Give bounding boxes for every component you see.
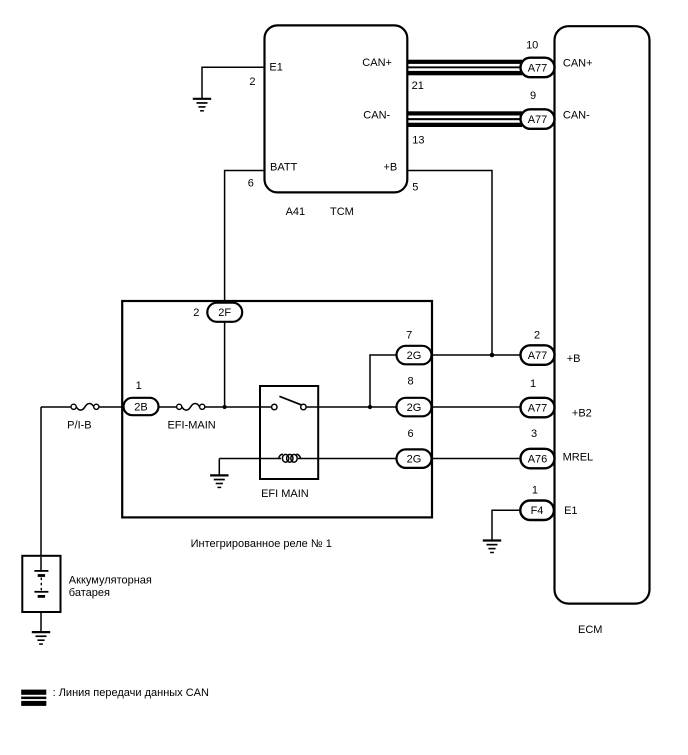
- svg-text:7: 7: [406, 330, 412, 342]
- svg-text:1: 1: [136, 380, 142, 392]
- svg-text:A41: A41: [286, 206, 306, 218]
- svg-text:батарея: батарея: [69, 587, 110, 599]
- connector oval A77 CAN+: [521, 58, 555, 77]
- svg-text:21: 21: [412, 80, 424, 92]
- svg-text:BATT: BATT: [270, 161, 298, 173]
- svg-text:1: 1: [530, 378, 536, 390]
- wire fuse EFI-MAIN to switch: [204, 406, 273, 408]
- relay EFI MAIN inner box: [260, 386, 318, 479]
- svg-text:A77: A77: [528, 402, 548, 414]
- svg-text:8: 8: [407, 376, 413, 388]
- svg-text:TCM: TCM: [330, 206, 354, 218]
- wire ECM F4 pin 1 to ground: [492, 510, 520, 540]
- connector oval 2G pin 8: [397, 398, 432, 417]
- svg-text:Интегрированное реле № 1: Интегрированное реле № 1: [191, 538, 332, 550]
- svg-text:: Линия передачи данных CAN: : Линия передачи данных CAN: [53, 687, 209, 699]
- node junction riser: [368, 405, 372, 409]
- svg-text:A76: A76: [528, 453, 548, 465]
- connector oval 2G pin 6: [397, 449, 432, 468]
- fuse P/I-B: [71, 404, 99, 411]
- svg-text:EFI-MAIN: EFI-MAIN: [167, 420, 215, 432]
- svg-text:2G: 2G: [407, 402, 422, 414]
- connector oval A77 +B: [521, 345, 555, 365]
- legend CAN bus symbol: [21, 690, 46, 706]
- relay switch contacts: [272, 396, 307, 409]
- wire coil row: ground to coil: [219, 458, 281, 460]
- svg-text:CAN+: CAN+: [362, 57, 392, 69]
- relay box (integrated relay No.1): [122, 301, 432, 517]
- wire switch to ECM A77 pin 1: [306, 406, 521, 408]
- svg-text:MREL: MREL: [563, 451, 594, 463]
- connector oval A77 +B2: [521, 398, 555, 418]
- svg-text:2B: 2B: [134, 401, 147, 413]
- svg-text:P/I-B: P/I-B: [67, 419, 91, 431]
- svg-text:+B: +B: [384, 162, 398, 174]
- svg-text:Аккумуляторная: Аккумуляторная: [69, 574, 152, 586]
- svg-text:+B: +B: [567, 353, 581, 365]
- svg-text:2: 2: [534, 330, 540, 342]
- svg-text:E1: E1: [564, 505, 577, 517]
- svg-text:5: 5: [412, 182, 418, 194]
- svg-text:F4: F4: [531, 505, 544, 517]
- svg-text:CAN-: CAN-: [363, 109, 390, 121]
- CAN+ bus line (TCM pin 21 to ECM A77 pin 10): [407, 60, 522, 76]
- wire TCM +B pin 5 right and down to +B node: [407, 171, 492, 356]
- connector oval 2B: [124, 398, 159, 415]
- wire coil to ECM A76 pin 3: [298, 458, 521, 460]
- svg-text:2: 2: [249, 76, 255, 88]
- svg-text:CAN-: CAN-: [563, 109, 590, 121]
- fuse EFI-MAIN: [177, 404, 205, 411]
- svg-text:+B2: +B2: [572, 408, 592, 420]
- ground G3 (ECM E1): [483, 541, 501, 553]
- relay coil: [279, 454, 301, 462]
- svg-text:9: 9: [530, 90, 536, 102]
- ground G4 (battery): [32, 632, 50, 644]
- CAN- bus line (TCM pin 13 to ECM A77 pin 9): [407, 111, 522, 127]
- ground G1 (TCM E1): [193, 99, 211, 111]
- connector oval F4 E1: [520, 501, 554, 521]
- svg-text:ECM: ECM: [578, 624, 602, 636]
- connector oval A76 MREL: [521, 449, 555, 469]
- svg-text:EFI MAIN: EFI MAIN: [261, 488, 309, 500]
- svg-text:10: 10: [526, 40, 538, 52]
- wire coil ground drop: [218, 459, 220, 475]
- svg-text:6: 6: [248, 177, 254, 189]
- battery box: [22, 556, 60, 612]
- wire fuse P/I-B to fuse EFI-MAIN: [98, 406, 178, 408]
- node junction +B: [490, 353, 495, 358]
- node junction 2F column: [223, 405, 227, 409]
- svg-text:A77: A77: [528, 350, 548, 362]
- svg-text:E1: E1: [269, 61, 282, 73]
- svg-text:2G: 2G: [407, 454, 422, 466]
- wire relay 2G pin 7 to ECM A77 pin 2: [432, 354, 521, 356]
- ground G2 (relay coil): [210, 475, 228, 487]
- TCM box A41: [265, 25, 408, 192]
- svg-text:6: 6: [407, 428, 413, 440]
- svg-text:13: 13: [412, 135, 424, 147]
- wire battery riser: [40, 407, 42, 570]
- svg-text:2: 2: [193, 307, 199, 319]
- ECM box: [555, 26, 650, 603]
- connector oval 2G pin 7: [397, 346, 432, 365]
- connector oval 2F: [207, 303, 242, 322]
- svg-text:3: 3: [531, 428, 537, 440]
- svg-text:1: 1: [532, 484, 538, 496]
- wire TCM E1 to ground: [202, 67, 265, 98]
- connector oval A77 CAN-: [521, 109, 555, 129]
- svg-text:2G: 2G: [407, 350, 422, 362]
- wire internal riser to 2G pin 7: [370, 355, 397, 407]
- wire TCM BATT pin 6 down to relay 2F: [225, 171, 265, 408]
- svg-text:A77: A77: [528, 114, 548, 126]
- svg-text:2F: 2F: [218, 307, 231, 319]
- wire battery negative to ground: [40, 598, 42, 632]
- wire main feed row: battery to fuse P/I-B: [41, 406, 72, 408]
- battery cells: [34, 557, 48, 597]
- svg-text:A77: A77: [528, 62, 548, 74]
- svg-text:CAN+: CAN+: [563, 58, 593, 70]
